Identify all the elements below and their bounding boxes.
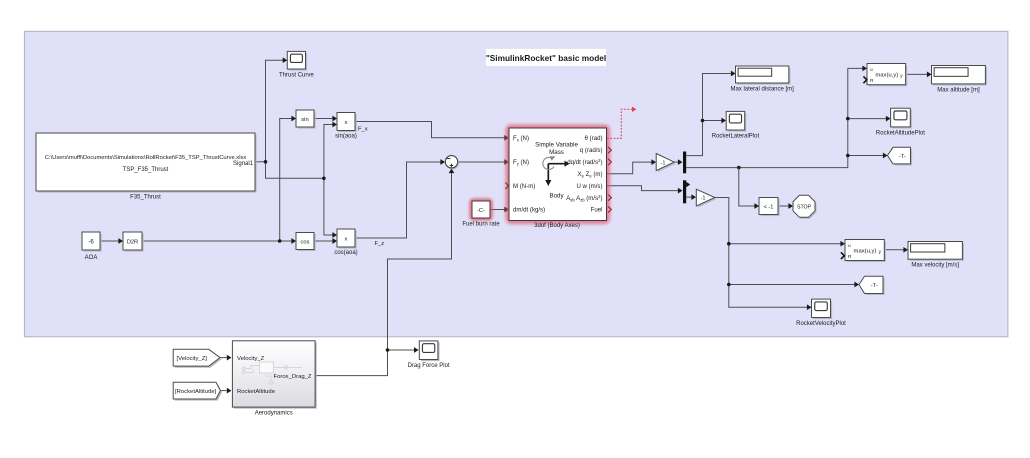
svg-text:Max altitude [m]: Max altitude [m] [937, 87, 980, 93]
svg-text:F35_Thrust: F35_Thrust [130, 195, 161, 201]
svg-text:Mass: Mass [549, 149, 564, 156]
svg-text:RocketVelocityPlot: RocketVelocityPlot [796, 321, 846, 327]
svg-text:u: u [870, 68, 873, 73]
svg-text:U w (m/s): U w (m/s) [576, 183, 602, 190]
svg-text:max(u,y): max(u,y) [875, 73, 898, 79]
svg-text:[RocketAltitude]: [RocketAltitude] [175, 389, 217, 395]
svg-text:Force_Drag_Z: Force_Drag_Z [274, 374, 312, 380]
svg-text:dq/dt (rad/s2): dq/dt (rad/s2) [567, 158, 602, 166]
svg-text:Velocity_Z: Velocity_Z [237, 356, 265, 362]
svg-text:Max lateral distance [m]: Max lateral distance [m] [730, 86, 794, 92]
svg-text:-1: -1 [701, 196, 706, 202]
svg-text:Fuel: Fuel [591, 207, 603, 214]
svg-text:TSP_F35_Thrust: TSP_F35_Thrust [123, 167, 169, 173]
svg-text:-6: -6 [88, 240, 94, 246]
svg-text:-T-: -T- [871, 283, 878, 289]
svg-text:D2R: D2R [127, 240, 138, 246]
svg-text:F_x: F_x [358, 126, 368, 132]
svg-text:< -1: < -1 [764, 204, 774, 210]
svg-text:STOP: STOP [797, 204, 812, 210]
svg-text:RocketAltitudePlot: RocketAltitudePlot [876, 131, 925, 137]
svg-text:R: R [870, 78, 874, 84]
svg-text:RocketLateralPlot: RocketLateralPlot [712, 134, 760, 140]
svg-text:Max velocity [m/s]: Max velocity [m/s] [911, 263, 959, 269]
svg-text:x: x [345, 236, 348, 242]
svg-text:-T-: -T- [899, 154, 906, 160]
svg-text:Signal1: Signal1 [233, 161, 254, 167]
svg-text:AOA: AOA [85, 255, 98, 261]
svg-text:C:\Users\muffl\Documents\Simul: C:\Users\muffl\Documents\Simulations\Rol… [45, 155, 247, 161]
svg-text:cos: cos [300, 239, 309, 245]
svg-text:cos(aoa): cos(aoa) [334, 250, 357, 256]
svg-text:Drag Force Plot: Drag Force Plot [408, 363, 450, 369]
svg-text:Fx (N): Fx (N) [513, 135, 529, 143]
svg-text:M (N-m): M (N-m) [513, 183, 535, 190]
svg-text:Fuel burn rate: Fuel burn rate [462, 222, 500, 228]
svg-text:θ (rad): θ (rad) [585, 135, 603, 142]
svg-text:u: u [848, 244, 851, 249]
svg-text:Body: Body [549, 192, 564, 199]
svg-text:-1: -1 [661, 160, 666, 166]
svg-text:Simple Variable: Simple Variable [535, 141, 578, 148]
svg-text:"SimulinkRocket" basic model: "SimulinkRocket" basic model [486, 53, 606, 63]
svg-text:sin: sin [301, 117, 308, 123]
svg-text:q (rad/s): q (rad/s) [580, 147, 603, 154]
svg-text:max(u,y): max(u,y) [854, 249, 877, 255]
svg-text:[Velocity_Z]: [Velocity_Z] [177, 356, 208, 362]
svg-text:F_z: F_z [375, 241, 385, 247]
svg-text:x: x [345, 120, 348, 126]
svg-text:R: R [848, 254, 852, 260]
svg-text:dm/dt (kg/s): dm/dt (kg/s) [513, 207, 545, 214]
svg-text:RocketAltitude: RocketAltitude [237, 389, 276, 395]
svg-text:Aerodynamics: Aerodynamics [255, 410, 293, 416]
svg-text:-C-: -C- [477, 208, 485, 214]
svg-text:sin(aoa): sin(aoa) [335, 134, 357, 140]
svg-text:Thrust Curve: Thrust Curve [279, 73, 314, 79]
svg-text:Fz (N): Fz (N) [513, 159, 529, 167]
svg-text:3dof (Body Axes): 3dof (Body Axes) [534, 223, 580, 229]
